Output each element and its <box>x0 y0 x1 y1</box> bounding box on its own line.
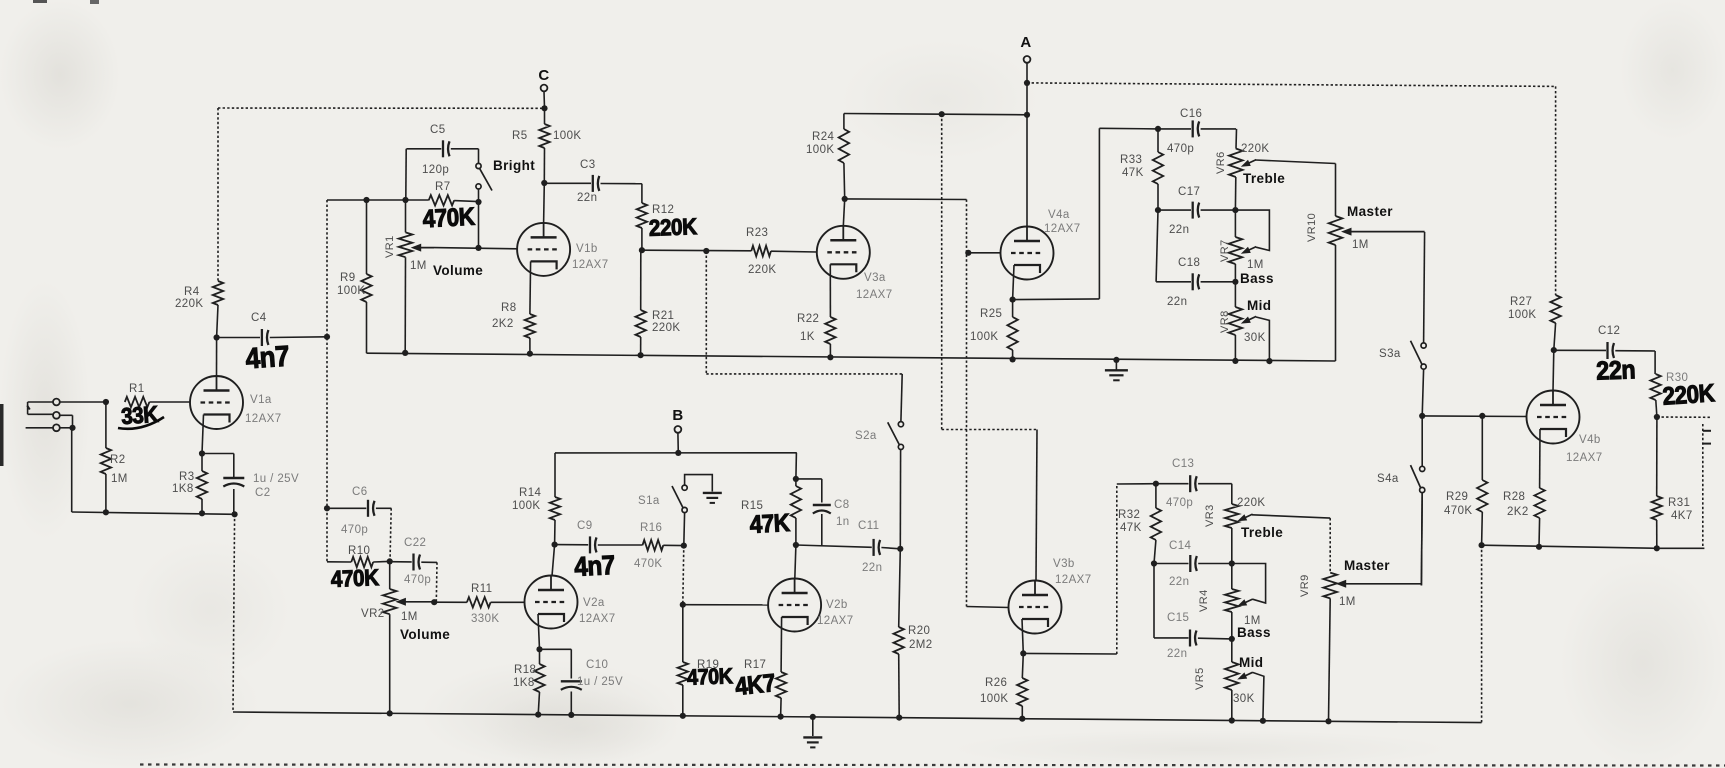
resistor R8 <box>492 261 535 353</box>
wire <box>552 545 555 576</box>
wire <box>538 614 540 649</box>
junction <box>527 351 533 357</box>
wire <box>1424 232 1425 343</box>
capacitor C16 <box>1158 108 1236 155</box>
junction <box>842 196 848 202</box>
svg-text:B: B <box>672 407 683 424</box>
junction <box>1654 414 1660 420</box>
svg-text:R2: R2 <box>110 454 126 466</box>
junction <box>675 450 681 456</box>
wire <box>683 604 769 606</box>
junction <box>475 199 481 205</box>
junction <box>1024 112 1030 118</box>
resistor R26 <box>980 653 1028 718</box>
wire <box>434 248 518 249</box>
handwritten 4n7 <box>574 551 616 583</box>
handwritten 470K <box>687 664 734 690</box>
svg-text:1M: 1M <box>1339 596 1356 608</box>
svg-text:470K: 470K <box>634 558 662 570</box>
wire <box>1482 545 1657 548</box>
junction <box>1232 358 1238 364</box>
svg-text:12AX7: 12AX7 <box>245 413 282 425</box>
wire <box>843 199 844 226</box>
svg-text:Master: Master <box>1344 558 1390 573</box>
wire <box>202 415 204 454</box>
scan artifact <box>140 765 1725 766</box>
switch S4a <box>1377 465 1425 493</box>
junction <box>324 334 330 340</box>
junction <box>60 425 76 431</box>
potentiometer VR6 <box>1215 129 1336 210</box>
junction <box>1536 544 1542 550</box>
svg-text:R25: R25 <box>980 308 1002 320</box>
junction <box>639 247 645 253</box>
capacitor C15 <box>1154 612 1232 660</box>
svg-text:2M2: 2M2 <box>909 639 933 651</box>
resistor R32 <box>1118 484 1161 564</box>
svg-text:330K: 330K <box>471 613 499 625</box>
svg-text:Master: Master <box>1347 204 1393 219</box>
wire <box>405 149 407 200</box>
wire <box>685 475 713 492</box>
junction <box>431 599 437 605</box>
junction <box>1155 126 1161 132</box>
ground <box>1105 360 1128 380</box>
svg-text:30K: 30K <box>1244 332 1266 344</box>
svg-text:12AX7: 12AX7 <box>1044 223 1081 235</box>
resistor R4 <box>175 108 223 338</box>
wire <box>899 450 901 549</box>
switch S1a <box>638 485 687 512</box>
svg-text:22n: 22n <box>1167 648 1187 660</box>
junction <box>810 714 816 720</box>
svg-text:V2b: V2b <box>826 599 848 611</box>
svg-text:VR10: VR10 <box>1306 213 1318 242</box>
svg-text:R11: R11 <box>471 583 492 595</box>
svg-text:100K: 100K <box>553 130 581 142</box>
svg-text:A: A <box>1020 34 1031 51</box>
resistor R33 <box>1120 129 1163 210</box>
svg-text:C12: C12 <box>1598 325 1620 337</box>
junction <box>199 510 205 516</box>
svg-text:47K: 47K <box>1122 167 1144 179</box>
svg-text:R20: R20 <box>908 625 930 637</box>
svg-text:47K: 47K <box>749 509 791 539</box>
svg-text:C13: C13 <box>1172 458 1194 470</box>
wire <box>1654 351 1656 374</box>
svg-text:VR5: VR5 <box>1194 667 1206 690</box>
svg-text:V3b: V3b <box>1053 558 1075 570</box>
svg-text:100K: 100K <box>970 331 998 343</box>
svg-text:2K2: 2K2 <box>492 318 514 330</box>
junction <box>1019 716 1025 722</box>
wire <box>1022 619 1023 653</box>
junction <box>214 334 220 340</box>
junction <box>536 646 542 652</box>
svg-text:C9: C9 <box>577 520 593 532</box>
resistor R17 <box>744 617 786 717</box>
wire <box>967 607 1010 608</box>
svg-text:30K: 30K <box>1233 693 1255 705</box>
junction <box>827 354 833 360</box>
input jack J1 <box>26 399 73 432</box>
junction <box>793 542 799 548</box>
svg-text:V1a: V1a <box>250 394 272 406</box>
capacitor C5 <box>406 124 478 176</box>
junction <box>103 399 109 405</box>
wire <box>1657 547 1705 549</box>
resistor R10 <box>327 545 390 567</box>
capacitor C11 <box>858 520 900 574</box>
svg-text:22n: 22n <box>1169 576 1189 588</box>
svg-text:R14: R14 <box>519 487 542 499</box>
svg-text:S3a: S3a <box>1379 348 1401 360</box>
junction <box>1151 560 1157 566</box>
svg-text:12AX7: 12AX7 <box>1055 574 1092 586</box>
svg-text:12AX7: 12AX7 <box>1566 452 1603 464</box>
junction <box>1010 356 1016 362</box>
junction <box>1229 717 1235 723</box>
triode V3b <box>1009 558 1092 634</box>
svg-text:220K: 220K <box>648 213 697 241</box>
triode V4b <box>1527 391 1603 465</box>
potentiometer VR1 <box>384 200 483 353</box>
svg-text:220K: 220K <box>1241 143 1269 155</box>
resistor R12 <box>637 203 675 250</box>
resistor R20 <box>894 549 933 718</box>
svg-text:C14: C14 <box>1169 540 1192 552</box>
svg-text:V4a: V4a <box>1048 209 1070 221</box>
svg-text:VR4: VR4 <box>1198 589 1210 612</box>
resistor R30 <box>1650 372 1688 417</box>
capacitor C13 <box>1156 458 1232 509</box>
svg-text:Volume: Volume <box>400 627 450 642</box>
svg-text:C3: C3 <box>580 159 596 171</box>
wire <box>1422 415 1527 418</box>
junction <box>681 543 687 549</box>
triode V2a <box>525 576 616 629</box>
svg-text:C: C <box>538 67 549 84</box>
svg-text:R7: R7 <box>435 181 451 193</box>
junction <box>1020 650 1026 656</box>
svg-text:R31: R31 <box>1668 497 1690 509</box>
svg-text:100K: 100K <box>1508 309 1536 321</box>
svg-text:C16: C16 <box>1180 108 1202 120</box>
switch Bright <box>476 158 535 191</box>
wire <box>901 374 902 422</box>
resistor R14 <box>512 453 560 545</box>
wire <box>1420 493 1423 586</box>
handwritten 22n <box>1596 356 1636 386</box>
resistor R15 <box>741 479 801 545</box>
svg-text:R26: R26 <box>985 677 1007 689</box>
capacitor C6 <box>327 486 391 536</box>
resistor R11 <box>434 583 525 625</box>
handwritten 33K <box>118 401 164 430</box>
wire <box>795 545 796 579</box>
svg-text:1K8: 1K8 <box>513 677 535 689</box>
wire <box>1098 128 1100 299</box>
wire <box>1013 265 1014 300</box>
wire <box>706 373 902 375</box>
junction <box>1232 207 1238 213</box>
svg-text:22n: 22n <box>577 192 597 204</box>
wire <box>795 453 798 479</box>
wire <box>478 202 480 248</box>
svg-text:R33: R33 <box>1120 154 1142 166</box>
junction <box>402 350 408 356</box>
svg-text:V1b: V1b <box>576 243 598 255</box>
svg-text:R21: R21 <box>652 310 674 322</box>
junction <box>965 250 971 256</box>
resistor R25 <box>970 300 1018 360</box>
wire <box>1036 430 1037 582</box>
wire <box>216 338 218 377</box>
potentiometer VR5 <box>1194 639 1264 721</box>
svg-text:4K7: 4K7 <box>1671 510 1693 522</box>
svg-text:C6: C6 <box>352 486 368 498</box>
svg-text:R4: R4 <box>184 286 200 298</box>
svg-text:C17: C17 <box>1178 186 1200 198</box>
svg-text:R10: R10 <box>348 545 370 557</box>
svg-text:1u / 25V: 1u / 25V <box>577 676 623 688</box>
svg-text:1M: 1M <box>1247 259 1264 271</box>
wire <box>845 198 967 201</box>
triode V3a <box>817 226 893 301</box>
junction <box>103 509 109 515</box>
wire <box>218 107 545 109</box>
svg-text:470K: 470K <box>687 664 734 690</box>
junction <box>793 476 799 482</box>
svg-text:C8: C8 <box>834 499 850 511</box>
svg-text:Bass: Bass <box>1240 271 1274 286</box>
wire <box>1013 298 1100 301</box>
svg-text:33K: 33K <box>120 401 159 430</box>
junction <box>1153 481 1159 487</box>
junction <box>1654 545 1660 551</box>
svg-text:Treble: Treble <box>1241 525 1283 540</box>
junction <box>541 180 547 186</box>
handwritten 4n7 <box>244 339 290 375</box>
capacitor C22 <box>390 537 437 586</box>
resistor R27 <box>1508 86 1561 350</box>
svg-text:C10: C10 <box>586 659 608 671</box>
wire <box>1026 63 1028 227</box>
triode V2b <box>768 579 853 632</box>
svg-text:VR1: VR1 <box>384 235 396 258</box>
svg-text:VR9: VR9 <box>1299 574 1311 597</box>
wire <box>683 546 684 605</box>
capacitor C14 <box>1154 540 1232 588</box>
junction <box>1024 80 1030 86</box>
wire <box>796 545 872 547</box>
wire <box>233 712 1482 723</box>
wire <box>1027 83 1556 87</box>
wire <box>1117 483 1156 485</box>
capacitor C4 <box>217 312 327 346</box>
junction <box>1229 560 1235 566</box>
resistor R3 <box>172 454 207 514</box>
svg-text:470p: 470p <box>341 524 368 536</box>
resistor R2 <box>101 402 128 512</box>
junction <box>387 558 393 564</box>
resistor R29 <box>1444 416 1488 545</box>
svg-text:22n: 22n <box>1169 224 1189 236</box>
wire <box>478 149 480 164</box>
handwritten 470K <box>422 203 476 234</box>
junction <box>778 714 784 720</box>
wire <box>390 508 391 561</box>
triode V4a <box>1001 209 1081 280</box>
wire <box>683 513 686 546</box>
wire <box>705 251 707 374</box>
svg-text:22n: 22n <box>1596 356 1636 386</box>
svg-text:1K: 1K <box>800 331 815 343</box>
wire <box>968 252 1001 254</box>
resistor R24 <box>806 114 849 199</box>
svg-text:4n7: 4n7 <box>244 339 290 375</box>
svg-text:120p: 120p <box>422 164 449 176</box>
svg-text:S2a: S2a <box>855 430 877 442</box>
capacitor C9 <box>555 520 643 553</box>
junction <box>568 712 574 718</box>
resistor R23 <box>746 227 817 276</box>
scan artifact <box>0 0 99 466</box>
svg-text:220K: 220K <box>652 322 680 334</box>
ground <box>703 493 722 503</box>
svg-text:22n: 22n <box>1167 296 1187 308</box>
svg-text:R5: R5 <box>512 130 528 142</box>
resistor R31 <box>1652 417 1693 548</box>
svg-text:VR3: VR3 <box>1204 504 1216 527</box>
svg-text:C5: C5 <box>430 124 446 136</box>
svg-text:VR8: VR8 <box>1219 310 1231 333</box>
junction <box>387 710 393 716</box>
resistor R16 <box>634 522 684 570</box>
svg-text:220K: 220K <box>175 298 203 310</box>
junction <box>199 450 205 456</box>
svg-text:R23: R23 <box>746 227 768 239</box>
svg-text:R16: R16 <box>640 522 662 534</box>
junction <box>1232 279 1238 285</box>
svg-text:Bass: Bass <box>1237 625 1271 640</box>
handwritten 47K <box>749 509 791 539</box>
junction <box>896 715 902 721</box>
svg-text:220K: 220K <box>1237 497 1265 509</box>
resistor R5 <box>512 108 581 183</box>
triode V1b <box>517 223 608 276</box>
triode V1a <box>190 376 282 429</box>
capacitor C10 <box>540 649 624 715</box>
wire <box>1552 350 1555 391</box>
svg-text:1M: 1M <box>1352 239 1369 251</box>
svg-text:R32: R32 <box>1118 509 1140 521</box>
resistor R28 <box>1503 429 1545 547</box>
junction <box>1479 413 1485 419</box>
svg-text:V2a: V2a <box>583 597 605 609</box>
svg-text:1M: 1M <box>401 611 418 623</box>
junction <box>324 505 330 511</box>
svg-text:C4: C4 <box>251 312 267 324</box>
wire <box>1422 369 1423 416</box>
svg-text:Treble: Treble <box>1243 171 1285 186</box>
junction <box>232 511 238 517</box>
handwritten 220K <box>1662 379 1716 411</box>
svg-text:C2: C2 <box>255 487 271 499</box>
junction <box>1479 542 1485 548</box>
svg-text:12AX7: 12AX7 <box>817 615 854 627</box>
potentiometer VR3 <box>1204 497 1330 564</box>
wire <box>941 114 943 429</box>
potentiometer VR8 <box>1219 282 1271 361</box>
svg-text:VR7: VR7 <box>1219 239 1231 262</box>
wire <box>1421 419 1423 467</box>
wire <box>233 514 235 712</box>
resistor R22 <box>797 264 836 357</box>
svg-text:R22: R22 <box>797 313 819 325</box>
svg-text:12AX7: 12AX7 <box>572 259 609 271</box>
svg-text:1M: 1M <box>111 473 128 485</box>
svg-text:V4b: V4b <box>1579 434 1601 446</box>
svg-text:47K: 47K <box>1120 522 1142 534</box>
node B <box>672 407 683 433</box>
svg-text:R8: R8 <box>501 302 517 314</box>
junction <box>1419 413 1425 419</box>
svg-text:100K: 100K <box>512 500 540 512</box>
svg-text:R1: R1 <box>129 383 145 395</box>
svg-text:470p: 470p <box>1167 143 1194 155</box>
switch S3a <box>1379 341 1426 369</box>
svg-text:R9: R9 <box>340 272 356 284</box>
svg-text:C22: C22 <box>404 537 426 549</box>
wire <box>942 429 1037 431</box>
wire <box>966 200 968 607</box>
wire <box>1231 484 1233 504</box>
svg-text:2K2: 2K2 <box>1507 506 1529 518</box>
junction <box>1551 347 1557 353</box>
potentiometer VR10 <box>1306 164 1425 362</box>
wire <box>1481 545 1483 722</box>
svg-text:220K: 220K <box>748 264 776 276</box>
svg-text:100K: 100K <box>980 693 1008 705</box>
svg-text:R28: R28 <box>1503 491 1525 503</box>
wire <box>844 114 1027 115</box>
wire <box>60 401 106 403</box>
wire <box>71 429 73 512</box>
junction <box>1010 297 1016 303</box>
resistor R1 <box>125 383 191 407</box>
junction <box>1266 358 1272 364</box>
svg-text:100K: 100K <box>806 144 834 156</box>
svg-text:470K: 470K <box>422 203 476 234</box>
potentiometer VR4 <box>1198 564 1271 641</box>
resistor R18 <box>513 649 545 714</box>
junction <box>939 111 945 117</box>
junction <box>402 197 408 203</box>
svg-text:Mid: Mid <box>1239 655 1263 670</box>
junction <box>897 546 903 552</box>
node A <box>1020 34 1031 63</box>
capacitor C3 <box>544 159 642 204</box>
potentiometer VR9 <box>1299 558 1421 721</box>
svg-text:S1a: S1a <box>638 495 660 507</box>
handwritten 4K7 <box>734 669 777 701</box>
capacitor C8 <box>796 479 850 545</box>
svg-text:100K: 100K <box>337 285 365 297</box>
resistor R9 <box>337 200 372 353</box>
svg-text:C15: C15 <box>1167 612 1189 624</box>
svg-text:4n7: 4n7 <box>574 551 616 583</box>
